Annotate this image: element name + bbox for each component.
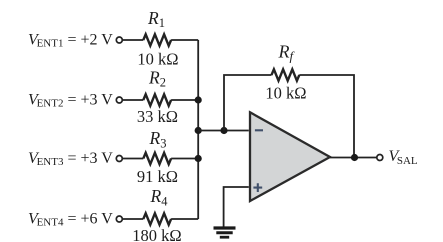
label R4: [150, 186, 169, 208]
terminal input 3: [116, 156, 122, 162]
svg-text:VENT3= +3 V: VENT3= +3 V: [28, 150, 113, 168]
resistor R2: [143, 94, 171, 105]
label R2: [148, 67, 166, 89]
svg-text:VSAL: VSAL: [389, 148, 418, 167]
node junction feedback tap: [220, 127, 227, 134]
svg-text:R4: R4: [150, 186, 169, 208]
node junction bus row2: [195, 96, 202, 103]
terminal input 2: [116, 97, 122, 103]
label R1: [147, 8, 165, 30]
wire output: [330, 157, 377, 159]
terminal input 4: [116, 216, 122, 222]
terminal input 1: [116, 37, 122, 43]
svg-text:R1: R1: [147, 8, 165, 30]
value 10 kΩ (R1): [137, 50, 178, 69]
svg-text:R3: R3: [149, 128, 167, 150]
svg-text:VENT4= +6 V: VENT4= +6 V: [28, 210, 113, 228]
node junction bus inverting: [195, 127, 202, 134]
label VENT3: [28, 150, 113, 168]
svg-text:VENT2= +3 V: VENT2= +3 V: [28, 91, 113, 109]
node junction output: [351, 154, 358, 161]
svg-text:Rf: Rf: [278, 42, 296, 64]
wire R1 to bus: [171, 39, 198, 41]
op-amp minus sign: [255, 129, 263, 131]
value 10 kΩ (Rf): [265, 84, 306, 103]
svg-text:91 kΩ: 91 kΩ: [137, 167, 178, 186]
wire input 4: [123, 218, 144, 220]
op-amp plus sign: [253, 183, 262, 192]
label Rf: [278, 42, 296, 64]
label R3: [149, 128, 167, 150]
svg-text:10 kΩ: 10 kΩ: [137, 50, 178, 69]
resistor R1: [143, 34, 171, 45]
wire R3 to bus: [171, 158, 198, 160]
label VSAL: [389, 148, 418, 167]
resistor R4: [143, 213, 171, 224]
label VENT1: [28, 31, 113, 49]
resistor Rf: [272, 69, 300, 80]
label VENT4: [28, 210, 113, 228]
wire R2 to bus: [171, 99, 198, 101]
value 91 kΩ (R3): [137, 167, 178, 186]
svg-text:VENT1= +2 V: VENT1= +2 V: [28, 31, 113, 49]
value 33 kΩ (R2): [137, 107, 178, 126]
wire input 2: [123, 99, 144, 101]
terminal output: [377, 155, 383, 161]
svg-text:33 kΩ: 33 kΩ: [137, 107, 178, 126]
wire R4 to bus: [171, 218, 198, 220]
wire input 1 with resistor zigzag: [123, 39, 144, 41]
ground: [214, 228, 236, 237]
node junction bus row3: [195, 155, 202, 162]
wire feedback right: [299, 75, 354, 158]
wire noninverting input: [224, 187, 249, 227]
wire to inverting input: [198, 130, 249, 132]
svg-text:180 kΩ: 180 kΩ: [132, 226, 181, 242]
resistor R3: [143, 153, 171, 164]
svg-text:10 kΩ: 10 kΩ: [265, 84, 306, 103]
value 180 kΩ (R4): [132, 226, 181, 242]
wire summing bus: [197, 40, 199, 219]
label VENT2: [28, 91, 113, 109]
svg-text:R2: R2: [148, 67, 166, 89]
wire feedback riser: [224, 75, 272, 131]
op-amp U1: [250, 112, 330, 201]
wire input 3: [123, 158, 144, 160]
